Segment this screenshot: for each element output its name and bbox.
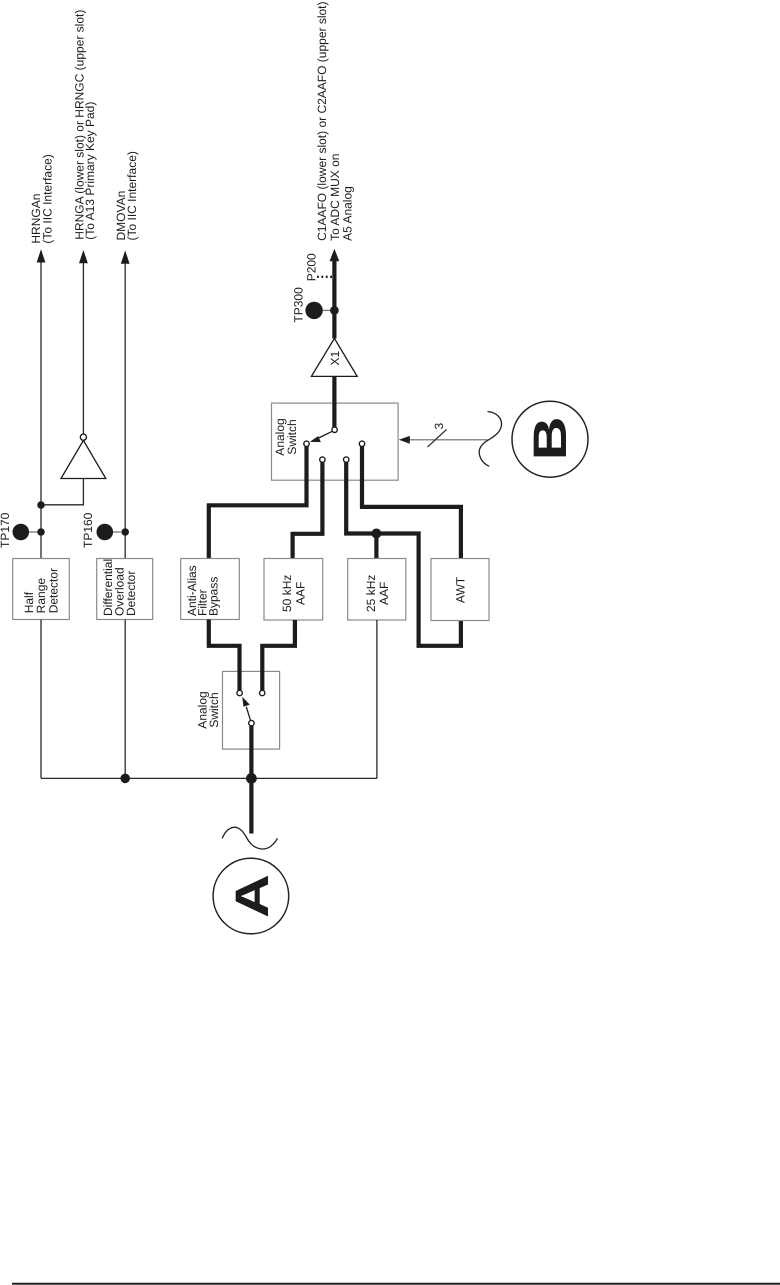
block Differential Overload Detector <box>97 559 153 620</box>
wire switch2 common down (thick) <box>249 726 253 834</box>
svg-text:AAF: AAF <box>377 582 391 605</box>
analog switch U-bottom box <box>223 671 280 749</box>
wire output to ADC (thick) <box>332 259 336 339</box>
svg-text:TP300: TP300 <box>291 287 305 323</box>
switch U-bottom contact pin 2 <box>260 690 265 695</box>
junction inverter-HRNGAn <box>37 501 45 509</box>
wire inverter output <box>41 479 83 505</box>
wire switch to 25kHz and AWT (thick) <box>346 462 461 646</box>
test point TP300 <box>305 302 322 319</box>
junction 25k stub <box>371 529 381 539</box>
op-amp X1 <box>311 338 357 376</box>
svg-text:A: A <box>225 874 278 918</box>
svg-text:Bypass: Bypass <box>206 577 220 616</box>
svg-text:(To IIC Interface): (To IIC Interface) <box>41 154 55 243</box>
svg-text:AWT: AWT <box>453 576 467 603</box>
wire switch to Anti-Alias (thick) <box>209 447 307 559</box>
svg-text:50 kHz: 50 kHz <box>280 575 294 612</box>
analog switch U-top box <box>272 403 399 480</box>
svg-text:Switch: Switch <box>207 692 221 727</box>
break squiggle B <box>479 412 501 467</box>
break squiggle A <box>222 827 277 849</box>
block 25 kHz AAF <box>348 559 406 621</box>
switch U-bottom lever <box>246 707 250 721</box>
svg-text:25 kHz: 25 kHz <box>364 575 378 612</box>
inverter U2 bubble <box>80 434 86 440</box>
svg-text:AAF: AAF <box>293 582 307 605</box>
wire input bus horizontal <box>41 777 377 779</box>
wire output arrowhead <box>330 249 340 261</box>
bus width slash <box>428 430 447 448</box>
wire switch to 50kHz (thick) <box>293 462 323 558</box>
footer rule <box>12 1283 780 1285</box>
svg-text:A5 Analog: A5 Analog <box>341 186 355 241</box>
wire net HRNGA vertical <box>82 255 84 434</box>
switch U-top contact pin 4 <box>359 441 364 446</box>
svg-text:(To IIC Interface): (To IIC Interface) <box>125 151 139 240</box>
junction input bus <box>246 773 257 784</box>
switch U-top lever <box>317 431 333 439</box>
block AWT <box>431 559 489 621</box>
svg-text:Detector: Detector <box>124 571 138 616</box>
block Half Range Detector <box>13 559 70 620</box>
wire TP170 stem <box>29 531 37 533</box>
off-page connector A <box>213 858 289 934</box>
wire TP300 stem <box>323 309 330 311</box>
svg-text:B: B <box>523 416 576 460</box>
connector P200 dotted stub <box>317 276 332 278</box>
test point TP160 <box>97 524 114 541</box>
switch U-bottom contact pin 1 <box>237 690 242 695</box>
svg-text:P200: P200 <box>305 253 319 281</box>
wire net HRNGAn vertical <box>40 254 42 559</box>
inverter U2 <box>61 440 106 478</box>
svg-text:(To A13 Primary Key Pad): (To A13 Primary Key Pad) <box>83 102 97 240</box>
wire 25k bottom <box>376 620 378 778</box>
switch U-top contact pin 3 <box>344 457 349 462</box>
wire TP160 stem <box>113 531 121 533</box>
junction TP160 node <box>121 528 129 536</box>
control bus arrow from B <box>403 439 488 441</box>
wire 50k to switch2 (thick) <box>262 620 295 690</box>
wire net DMOVAn vertical <box>124 255 126 558</box>
off-page connector B <box>512 401 588 477</box>
svg-text:C1AAFO (lower slot) or C2AAFO: C1AAFO (lower slot) or C2AAFO (upper slo… <box>315 1 329 240</box>
switch U-top common contact <box>332 427 337 432</box>
svg-text:3: 3 <box>432 422 446 429</box>
wire HRNGAn arrowhead <box>37 249 46 262</box>
junction DMOV-bus <box>120 774 130 784</box>
wire Differential output <box>124 620 126 779</box>
svg-text:Detector: Detector <box>47 568 61 613</box>
block Anti-Alias Filter Bypass <box>181 559 240 620</box>
wire HRNGA arrowhead <box>79 250 88 263</box>
block 50 kHz AAF <box>264 559 323 621</box>
junction TP300 node <box>330 306 339 315</box>
wire X1 output to switch (thick) <box>332 376 336 428</box>
wire Anti-Alias to switch2 (thick) <box>209 620 240 691</box>
svg-text:TP160: TP160 <box>81 512 95 548</box>
switch U-top contact pin 1 <box>304 441 309 446</box>
svg-text:Switch: Switch <box>285 419 299 454</box>
wire Half Range output <box>40 620 42 779</box>
test point TP170 <box>12 524 29 541</box>
switch U-bottom common contact <box>249 720 254 725</box>
junction TP170 node <box>37 528 45 536</box>
svg-text:TP170: TP170 <box>0 512 12 548</box>
switch U-top contact pin 2 <box>320 457 325 462</box>
wire switch to AWT top (thick) <box>362 447 461 559</box>
wire DMOVAn arrowhead <box>121 251 130 264</box>
svg-text:X1: X1 <box>328 350 342 365</box>
